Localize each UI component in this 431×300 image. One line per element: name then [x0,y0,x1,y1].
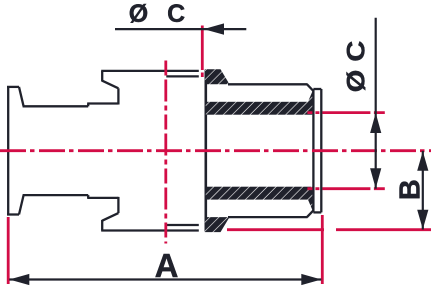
left flange bottom chamfer [19,195,24,214]
ring left chamfer bottom [102,213,118,221]
left flange top chamfer [19,87,24,106]
neck OD top [228,83,308,85]
neck OD bottom [228,216,308,218]
B dimension line [422,151,424,230]
thread band bottom: texture row [206,195,314,200]
vertical mid centerline [164,61,167,244]
flange chamfer triangle top (hatched) [306,89,314,107]
diameter C right extension bottom [307,187,384,190]
shoulder face of right fitting [205,70,208,232]
diameter C right arrow down [370,168,381,188]
svg-text:B: B [394,179,426,200]
right flange face [320,89,322,212]
ring OD top [101,70,199,72]
ring left vertical bottom [117,197,119,213]
left flange face [7,86,9,215]
ring left edge bottom [101,220,103,231]
ring left chamfer top [102,81,118,89]
tube OD top [87,102,118,104]
A arrowhead right [301,274,321,285]
right flange left edge [312,89,314,212]
right flange bottom edge [313,211,321,213]
diameter C left leader line [115,28,246,30]
ring (hat) left vertical top [117,88,119,104]
A dimension line [9,278,321,280]
chamfer block top (hatched) [205,69,230,84]
ring OD bottom [101,229,199,231]
B bottom extension [227,228,431,231]
thread band top: texture row [206,102,314,107]
svg-text:Ø C: Ø C [341,41,370,93]
ring left edge top [101,71,103,82]
step bottom [87,195,89,198]
thread root line bottom [166,224,199,226]
diameter C right arrow up [370,113,381,133]
collar OD bottom [23,194,89,196]
diameter C left extension line [201,26,204,78]
A arrowhead left [9,274,29,285]
collar OD top [23,105,89,107]
right flange top edge [313,88,321,90]
svg-text:A: A [155,247,179,284]
diameter C left arrowhead [204,23,224,34]
chamfer block bottom (hatched) [205,217,230,232]
A extension right [321,215,324,284]
left flange bottom edge [7,213,19,215]
thread root line top [166,75,199,77]
horizontal centerline [0,149,431,152]
thread band top: solid body [206,105,314,115]
B arrow up [417,151,428,171]
flange chamfer triangle bottom (hatched) [306,194,314,212]
tube OD bottom [87,197,118,199]
neck-to-flange chamfer top [307,84,313,91]
step top [87,104,89,107]
left flange top edge [7,86,19,88]
diameter C right dimension line [375,18,377,189]
diameter C right extension top [307,111,384,114]
B arrow down [417,210,428,230]
neck-to-flange chamfer bottom [307,210,313,217]
A extension left [7,217,10,284]
thread band bottom: solid body [206,187,314,197]
svg-text:Ø C: Ø C [129,0,191,28]
